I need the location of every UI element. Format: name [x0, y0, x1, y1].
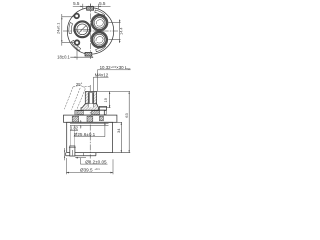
- svg-text:18±0.1: 18±0.1: [57, 55, 70, 60]
- svg-text:25°: 25°: [76, 82, 83, 87]
- svg-text:5.5: 5.5: [73, 1, 80, 6]
- svg-text:63: 63: [124, 113, 129, 118]
- svg-text:14.4: 14.4: [120, 28, 124, 35]
- svg-text:24±0.1: 24±0.1: [56, 23, 60, 34]
- svg-text:M4x12: M4x12: [95, 73, 109, 78]
- svg-text:Ø25.6±0.1: Ø25.6±0.1: [74, 132, 96, 137]
- svg-text:Ø8.2±0.05: Ø8.2±0.05: [85, 159, 107, 164]
- svg-text:1.82: 1.82: [70, 126, 79, 131]
- svg-text:5.5: 5.5: [99, 1, 106, 6]
- svg-text:Ø39.5: Ø39.5: [80, 168, 93, 173]
- svg-text:19: 19: [104, 98, 108, 102]
- svg-text:34: 34: [116, 128, 121, 133]
- svg-text:+0.1: +0.1: [94, 167, 100, 171]
